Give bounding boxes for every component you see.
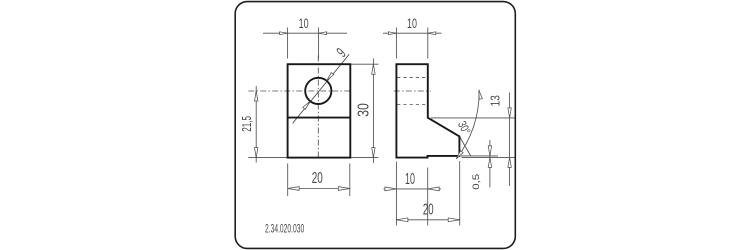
svg-text:10: 10 bbox=[407, 16, 417, 31]
svg-text:2.34.020.030: 2.34.020.030 bbox=[265, 223, 305, 237]
svg-text:21,5: 21,5 bbox=[240, 116, 254, 132]
svg-text:20: 20 bbox=[312, 169, 323, 187]
svg-text:13: 13 bbox=[490, 95, 503, 106]
svg-text:30: 30 bbox=[354, 103, 372, 117]
svg-text:10: 10 bbox=[299, 16, 309, 31]
svg-text:0,5: 0,5 bbox=[472, 174, 482, 190]
svg-text:20: 20 bbox=[423, 200, 434, 218]
svg-text:10: 10 bbox=[405, 169, 415, 188]
